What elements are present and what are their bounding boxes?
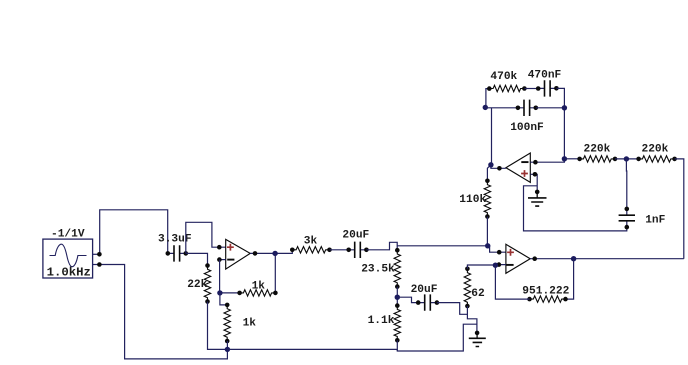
wire 951.222 left up to - input [495,265,529,299]
wire 22k bottom to bottom rail [208,302,228,350]
node 62 top [465,267,470,272]
node C4 right [554,86,559,91]
wire 62 bottom to ground [467,306,477,333]
node 62 bottom [465,304,470,309]
capacitor C4 470nF [538,87,556,89]
wire bottom rail right [397,324,477,351]
wire junction to 220k A [564,158,579,160]
wire long horizontal to U3 + input [397,246,506,252]
wire junction to C3 [397,297,418,302]
wire U2 - input to 220k junction [530,159,564,162]
wire C1 to 22k top [186,253,208,265]
node U3 + junction [485,243,490,248]
op-amp U2 [506,153,530,182]
node source top terminal [97,252,102,257]
wire C5 right to corner [536,107,565,109]
wire C2 right step up/over to 23.5k [366,242,397,250]
resistor R4 3k [292,247,329,253]
node top-left junction [483,105,488,110]
node U2 + input [533,172,538,177]
resistor R8 951.222 [530,296,566,302]
svg-text:3k: 3k [304,235,318,247]
wire 3k to C2 [330,249,349,251]
wire U2 output stub [491,165,506,169]
node 220k row left junction [562,156,567,161]
node C5 right [534,106,539,111]
wire 220k B to right corner down to output row [675,159,684,259]
node feedback junction [217,290,222,295]
wire source bottom terminal L-path to bottom rail [93,264,100,266]
node 23.5k top [395,248,400,253]
resistor R7 62 [464,269,470,306]
wire U3 output to right rail [530,258,684,260]
node source bottom terminal [97,262,102,267]
wire feedback drop [274,253,276,293]
node 1nF top [625,207,630,212]
node U1 - input [217,257,222,262]
node U2 - input [533,160,538,165]
wire ground T left arm to 1nF bottom rail [524,186,627,231]
resistor R10 470k [489,85,524,91]
node 100nF right junction [562,105,567,110]
resistor R11 220k [580,156,615,162]
op-amp U3 [506,244,530,273]
node ground G2 [475,331,480,336]
node 220k B right [672,157,677,162]
node 110k top [485,179,490,184]
op-amp U1 [226,239,251,269]
node C2 left [346,248,351,253]
node 1.1k bottom [395,338,400,343]
node C1 right [184,251,189,256]
resistor R6 1.1k [394,306,400,341]
svg-text:1k: 1k [252,281,266,293]
wire feedback node to 1k [220,292,240,294]
node C4 left [536,86,541,91]
node 220k A left [577,157,582,162]
node U3 + input [497,250,502,255]
ground G2 [476,333,478,338]
resistor R3 1k (to rail) [224,305,230,341]
wire source top terminal to 3.3uF (up and over) [93,253,100,255]
wire feedback node down to 1k vertical [220,293,227,305]
svg-text:-1/1V: -1/1V [51,229,85,241]
svg-text:23.5k: 23.5k [361,263,395,275]
node C3 right [435,300,440,305]
svg-text:20uF: 20uF [342,229,369,241]
node 22k bottom [205,299,210,304]
node R3 bottom [225,339,230,344]
node U2 output [497,166,502,171]
wire 1.1k bottom to rail [396,340,398,351]
resistor R2 1k (feedback) [240,290,276,296]
svg-text:100nF: 100nF [510,122,544,134]
svg-text:220k: 220k [642,143,669,155]
node output junction right [571,256,576,261]
wire R3 bottom to rail junction [226,341,228,349]
resistor R12 220k [639,156,675,162]
node 1.1k top [395,303,400,308]
node 22k top [205,263,210,268]
wire top row left corner [486,89,489,108]
node 1nF bottom [625,225,630,230]
wire between 220k resistors [615,158,639,160]
node R3 top [225,303,230,308]
node 1k right [273,291,278,296]
wire rail down to U2 output node [491,108,493,165]
node U3 - junction [493,263,498,268]
node 951.222 right [563,297,568,302]
svg-text:1k: 1k [243,318,257,330]
svg-text:1.0kHz: 1.0kHz [47,265,91,279]
node 3k right [327,248,332,253]
node 3k left [290,248,295,253]
node U1 + input [217,245,222,250]
node 110k bottom [485,214,490,219]
node 951.222 left [527,297,532,302]
node C3 left [416,300,421,305]
voltage source V1 box [43,239,93,278]
node 23.5k bottom [395,284,400,289]
wire bottom rail left [227,348,397,350]
node U3 - input [497,262,502,267]
node 220k A right [613,157,618,162]
svg-text:110k: 110k [459,194,486,206]
capacitor C3 20uF [418,302,437,304]
resistor R9 110k [484,181,490,217]
node 220k B left [636,157,641,162]
resistor 22k [204,266,210,302]
node bottom rail junction [225,347,230,352]
wire U1 - input down to feedback node [219,260,221,293]
capacitor C5 100nF [518,107,536,109]
wire 220k mid down to 1nF [625,159,627,209]
node U2 output junction [488,162,493,167]
svg-text:470k: 470k [490,71,517,83]
svg-text:62: 62 [471,288,485,300]
node C5 left [516,106,521,111]
node output junction [272,251,277,256]
node 470k right [522,86,527,91]
wire 110k bottom to U3 + junction [486,217,488,246]
resistor R5 23.5k [394,250,400,286]
svg-text:220k: 220k [584,143,611,155]
svg-text:951.222: 951.222 [522,286,569,298]
capacitor C1 3.3uF [168,252,186,254]
wire U1 - input stub [219,259,225,261]
voltage source V1 sine wave [50,244,87,267]
wire C4 right to corner down [556,88,564,158]
node ground G1 [535,190,540,195]
wire C3 right step down to 62 leg [437,303,468,315]
svg-text:3.3uF: 3.3uF [158,234,192,246]
node 1k left [237,291,242,296]
node C2 right [364,248,369,253]
wire U1 output to junction [250,250,292,254]
capacitor C6 1nF [626,209,628,227]
node U1 output [253,251,258,256]
wire 100nF row [485,107,518,109]
wire 470k to C4 [524,88,538,90]
node 220k mid junction [624,156,629,161]
capacitor C2 20uF [349,249,367,251]
wire feedback down to 951.222 [566,259,574,299]
wire 23.5k bottom through junction to 1.1k [396,287,398,306]
svg-text:1.1k: 1.1k [368,315,395,327]
node U3 output [532,256,537,261]
svg-text:22k: 22k [187,279,207,291]
svg-text:1nF: 1nF [645,214,665,226]
wire C1 to U1 noninverting input (up and over) [186,222,226,253]
wire rail to 110k top [487,165,491,181]
svg-text:20uF: 20uF [411,284,438,296]
ground G1 [536,192,538,198]
node mid junction [395,295,400,300]
svg-text:470nF: 470nF [528,69,562,81]
node C1 left [166,251,171,256]
wire U2 + input down to ground T [530,174,537,192]
node 470k left [487,86,492,91]
wire U3 - input to 62 top [467,265,506,269]
